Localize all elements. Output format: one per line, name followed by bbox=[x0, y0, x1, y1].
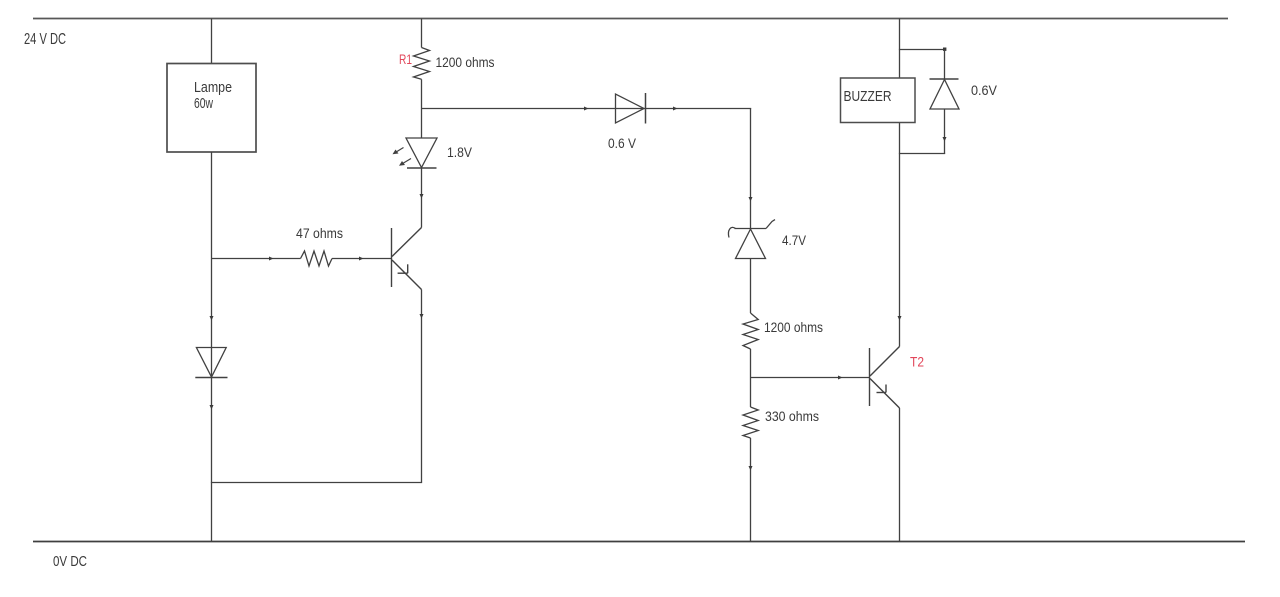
junction arrow bbox=[898, 316, 902, 321]
svg-text:1.8V: 1.8V bbox=[447, 144, 473, 160]
wire: zener to resistor R3 bbox=[750, 259, 752, 314]
zener ZD1 4.7V bbox=[728, 220, 775, 259]
svg-text:4.7V: 4.7V bbox=[782, 232, 807, 248]
transistor T1 bbox=[392, 228, 422, 290]
wire: T2 collector up to buzzer bbox=[899, 123, 901, 347]
resistor R4 330 ohms bbox=[743, 407, 758, 438]
wire: D1 node down to zener ZD1 bbox=[750, 109, 752, 230]
junction arrow bbox=[673, 107, 678, 111]
wire: 0V bottom rail bbox=[33, 541, 1245, 543]
resistor R3 1200 ohms bbox=[743, 313, 758, 349]
wire: +24V top rail bbox=[33, 18, 1228, 20]
wire: buzzer top branch bbox=[899, 49, 945, 51]
wire: buzzer bottom branch bbox=[899, 153, 945, 155]
svg-text:T2: T2 bbox=[910, 354, 924, 370]
wire: T1 emitter down bbox=[421, 290, 423, 483]
svg-text:60w: 60w bbox=[194, 95, 213, 112]
svg-text:BUZZER: BUZZER bbox=[844, 88, 892, 105]
junction arrow bbox=[210, 316, 214, 321]
junction arrow bbox=[943, 137, 947, 142]
svg-text:24 V DC: 24 V DC bbox=[24, 31, 66, 48]
wire: D4 down bbox=[944, 109, 946, 154]
diode D1 0.6 V bbox=[616, 94, 645, 123]
wire: T2 emitter to 0V rail bbox=[899, 408, 901, 541]
wire: T2 base wire bbox=[751, 377, 870, 379]
wire: R3 to R4 bbox=[750, 349, 752, 407]
svg-text:0.6 V: 0.6 V bbox=[608, 135, 637, 151]
junction arrow bbox=[210, 405, 214, 410]
wire: lamp to diode D2 bbox=[211, 152, 213, 377]
junction arrow bbox=[359, 257, 364, 261]
diode D2 bbox=[196, 348, 226, 378]
junction arrow bbox=[749, 197, 753, 202]
wire: branch down to diode D4 bbox=[944, 50, 946, 80]
svg-text:1200 ohms: 1200 ohms bbox=[436, 54, 495, 70]
svg-text:0V DC: 0V DC bbox=[53, 553, 87, 570]
svg-text:330 ohms: 330 ohms bbox=[765, 408, 819, 424]
svg-text:1200 ohms: 1200 ohms bbox=[764, 319, 823, 335]
wire: LED to T1 collector bbox=[421, 168, 423, 228]
wire: R4 to 0V rail bbox=[750, 438, 752, 541]
LED D3 bbox=[406, 138, 437, 168]
LED light arrows bbox=[393, 148, 412, 166]
wire: R1 to LED D3 bbox=[421, 79, 423, 138]
junction arrow bbox=[749, 466, 753, 471]
lamp LA1 box bbox=[167, 64, 256, 153]
junction arrow bbox=[269, 257, 274, 261]
wire: resistor R2 to transistor T1 base bbox=[332, 258, 392, 260]
wire: diode D2 to 0V rail bbox=[211, 378, 213, 542]
junction arrow bbox=[420, 194, 424, 199]
diode D4 0.6V bbox=[930, 78, 959, 80]
transistor T2 bbox=[870, 347, 900, 409]
resistor R2 47 ohms bbox=[301, 251, 333, 266]
svg-text:47 ohms: 47 ohms bbox=[296, 225, 343, 241]
junction dot bbox=[943, 48, 946, 51]
junction arrow bbox=[838, 376, 843, 380]
resistor R1 1200 ohms bbox=[414, 48, 430, 80]
wire: rail to resistor R1 bbox=[421, 19, 423, 48]
junction arrow bbox=[584, 107, 589, 111]
svg-text:R1: R1 bbox=[399, 51, 412, 67]
junction arrow bbox=[420, 314, 424, 319]
wire: rail to lamp bbox=[211, 19, 213, 65]
wire: base wire to resistor R2 bbox=[212, 258, 301, 260]
svg-text:0.6V: 0.6V bbox=[971, 82, 998, 98]
wire: emitter return jumper bbox=[211, 482, 422, 484]
wire: node below R1 to diode D1 bbox=[422, 108, 752, 110]
wire: rail to buzzer bbox=[899, 19, 901, 79]
svg-text:Lampe: Lampe bbox=[194, 79, 232, 96]
buzzer BZ1 box bbox=[841, 78, 916, 123]
